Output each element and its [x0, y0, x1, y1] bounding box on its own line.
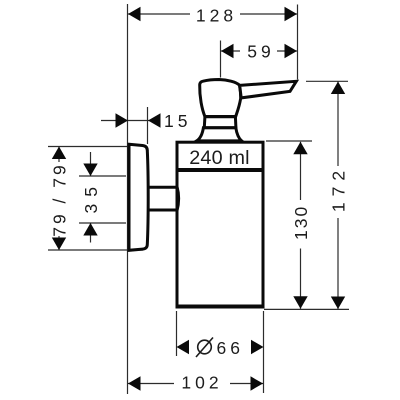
- svg-text:130: 130: [291, 205, 311, 240]
- pump head: [200, 80, 241, 117]
- bottle shoulder band line: [176, 168, 265, 172]
- svg-text:66: 66: [217, 338, 244, 358]
- dimension 79 / 79: [50, 147, 70, 251]
- pump collar: [204, 117, 236, 128]
- extension line right of 128/59: [297, 5, 299, 80]
- svg-text:35: 35: [81, 180, 101, 213]
- bottle body: [177, 142, 263, 306]
- dimension diameter 66: [177, 338, 264, 359]
- extension line bottle left bottom: [176, 311, 178, 356]
- dimension 130: [291, 142, 311, 309]
- bracket arm top edge: [149, 186, 178, 189]
- pump skirt: [197, 128, 242, 141]
- extension line bottle right bottom: [263, 311, 265, 393]
- extension line bottle top for 130: [266, 140, 312, 142]
- svg-text:128: 128: [196, 6, 237, 26]
- extension line bracket front for 15: [147, 107, 149, 144]
- extension line spout top for 172: [306, 80, 348, 82]
- extension line left of 59 (pump center): [220, 41, 222, 78]
- svg-text:240 ml: 240 ml: [189, 147, 250, 169]
- svg-text:172: 172: [329, 165, 349, 212]
- dimension 59: [221, 42, 297, 62]
- svg-text:59: 59: [247, 42, 274, 62]
- pump spout lever: [240, 81, 297, 98]
- extension line bottom left for 79/79: [48, 249, 143, 251]
- svg-text:102: 102: [181, 373, 222, 393]
- wall bracket plate: [129, 144, 148, 250]
- svg-text:79 / 79: 79 / 79: [50, 162, 70, 237]
- wall line: [127, 4, 129, 394]
- extension line top left for 79/79: [48, 146, 143, 148]
- bracket arm bottom edge: [149, 209, 178, 212]
- holder ring bulge on bottle left edge: [177, 187, 179, 211]
- dimension 102: [128, 373, 263, 393]
- extension line upper for 35: [79, 175, 126, 177]
- extension line lower for 35: [79, 222, 126, 224]
- dimension 128: [128, 6, 297, 26]
- extension line bottle bottom for 130/172: [264, 308, 349, 310]
- bottle bottom line: [176, 305, 265, 309]
- dimension 15: [101, 111, 191, 131]
- dimension 172: [329, 82, 349, 310]
- svg-text:15: 15: [164, 111, 191, 131]
- dimension 35: [81, 152, 101, 243]
